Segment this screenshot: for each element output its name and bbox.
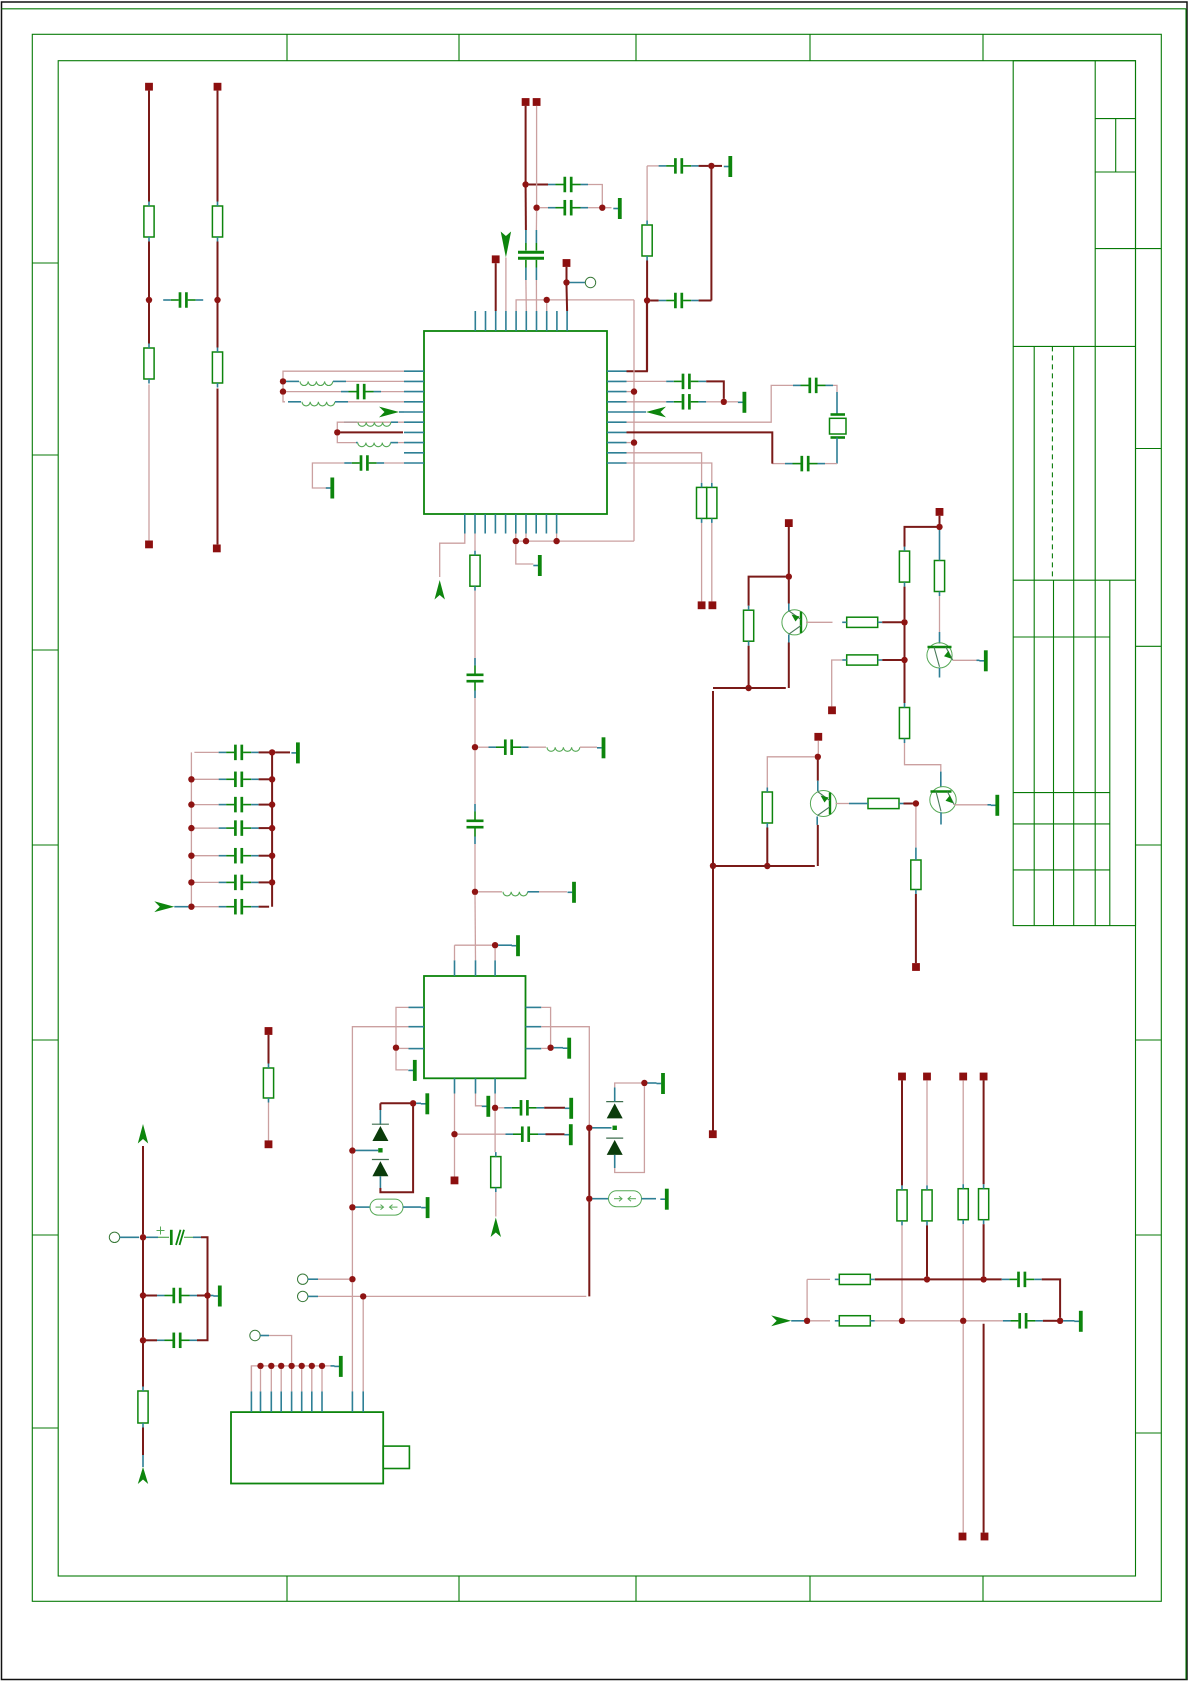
wire — [953, 659, 977, 661]
node N4 — [140, 1337, 146, 1343]
capacitor C3 — [548, 200, 588, 216]
wire — [260, 1369, 262, 1392]
inductor L3 — [358, 422, 391, 426]
wire — [250, 1366, 252, 1392]
wire — [455, 944, 493, 946]
wire — [788, 580, 790, 604]
wire — [286, 391, 341, 393]
node M6 — [1057, 1318, 1063, 1324]
terminal TP5 — [250, 1330, 260, 1340]
wire — [142, 1428, 144, 1456]
wire — [546, 303, 548, 311]
resistor R7 — [707, 483, 717, 523]
wire — [983, 1224, 985, 1276]
wire — [259, 827, 270, 829]
wire — [904, 587, 906, 620]
wire — [627, 385, 794, 422]
power flag PF2 — [501, 232, 511, 258]
terminal P15 — [814, 733, 822, 741]
power flag PF3 — [646, 407, 666, 418]
terminal P18 — [898, 1073, 906, 1081]
wire — [217, 91, 219, 202]
wire — [268, 1103, 270, 1141]
terminal P19 — [923, 1073, 931, 1081]
wire — [474, 534, 476, 551]
diode D4 — [606, 1138, 623, 1155]
node O6 — [309, 1363, 315, 1369]
inductor L2 — [302, 402, 335, 406]
ground GND5 — [533, 555, 540, 576]
power flag PF1 — [379, 407, 399, 418]
capacitor C21 — [157, 1288, 197, 1304]
wire — [259, 804, 270, 806]
wire — [646, 304, 648, 372]
terminal TP2 — [298, 1274, 308, 1284]
diode D3 — [606, 1102, 623, 1119]
wire — [396, 1007, 409, 1044]
ground GND2 — [724, 156, 731, 177]
wire — [905, 527, 937, 547]
wire — [525, 106, 527, 182]
wire — [301, 1369, 303, 1392]
wire — [962, 1324, 964, 1533]
wire — [627, 463, 712, 483]
capacitor C26 — [219, 820, 259, 836]
capacitor C10 — [666, 394, 706, 410]
node M1 — [924, 1276, 930, 1282]
wire — [882, 659, 901, 661]
ground GND7 — [568, 882, 575, 903]
capacitor C27 — [219, 848, 259, 864]
wire — [588, 1202, 590, 1297]
node B3 — [599, 205, 605, 211]
wire — [142, 1299, 144, 1338]
wire — [454, 1094, 456, 1132]
node I1 — [492, 942, 498, 948]
transistor Q3 — [810, 791, 836, 817]
wire — [806, 621, 833, 623]
wire — [633, 300, 635, 541]
resistor R11 — [842, 617, 882, 627]
node D1 — [280, 378, 286, 384]
wire — [362, 1299, 364, 1391]
node N1 — [140, 1234, 146, 1240]
wire — [197, 1299, 208, 1341]
wire — [474, 698, 476, 744]
node E2 — [631, 388, 637, 394]
resistor R6 — [697, 483, 707, 523]
wire — [516, 544, 534, 564]
wire — [525, 534, 527, 539]
resistor R21 — [958, 1184, 968, 1224]
node CB1L — [188, 776, 194, 782]
resistor R26 — [263, 1064, 273, 1103]
node E3 — [631, 439, 637, 445]
node CB6L — [188, 904, 194, 910]
IC U1 — [424, 331, 607, 514]
wire — [541, 1007, 550, 1044]
node M4 — [899, 1318, 905, 1324]
wire — [458, 1133, 506, 1135]
wire — [588, 185, 602, 205]
ground GND12 — [565, 1098, 572, 1119]
capacitor C2 — [548, 177, 588, 193]
ground GND13 — [564, 1124, 571, 1145]
wire — [901, 1225, 903, 1317]
wire — [627, 401, 667, 403]
power flag PF4 — [435, 580, 445, 600]
node O2 — [268, 1363, 274, 1369]
resistor R8 — [470, 551, 480, 591]
terminal P3 — [145, 541, 153, 549]
wire — [539, 891, 567, 893]
transistor Q4 — [930, 787, 956, 813]
wire — [566, 286, 569, 312]
wire — [627, 304, 647, 372]
resistor R22 — [979, 1184, 989, 1224]
ground GND20 — [1074, 1311, 1081, 1332]
U2 pins — [409, 960, 542, 1093]
wire — [269, 1336, 292, 1363]
wire — [270, 1369, 272, 1392]
node O4 — [288, 1363, 294, 1369]
wire — [478, 891, 502, 893]
capacitor C24 — [219, 772, 259, 788]
terminal P24 — [265, 1027, 273, 1035]
wire — [939, 596, 941, 632]
power flag PF8 — [138, 1467, 148, 1484]
wire — [544, 1107, 565, 1109]
wire — [706, 401, 721, 403]
terminal TP3 — [298, 1291, 308, 1301]
ground GND3 — [326, 478, 333, 499]
wire — [280, 1369, 282, 1392]
resistor R19 — [897, 1185, 907, 1225]
capacitor C6 — [659, 293, 699, 309]
ground GND15 — [421, 1197, 428, 1218]
wire — [340, 431, 403, 433]
wire — [498, 1107, 504, 1109]
wire — [714, 165, 722, 167]
node H1 — [472, 744, 478, 750]
wire — [478, 746, 489, 748]
wire — [283, 395, 285, 402]
wire — [351, 1210, 353, 1276]
node B1 — [522, 181, 528, 187]
fuse F1 — [370, 1199, 403, 1215]
wire — [194, 778, 218, 780]
node I3 — [547, 1045, 553, 1051]
resistor R20 — [922, 1185, 932, 1225]
wire — [259, 855, 270, 857]
wire — [556, 534, 558, 539]
wire — [905, 743, 941, 772]
node L2 — [745, 685, 751, 691]
terminal P25 — [265, 1140, 273, 1148]
node O5 — [299, 1363, 305, 1369]
capacitor C13 — [467, 658, 484, 698]
wire — [833, 385, 837, 392]
wire — [440, 534, 465, 578]
wire — [495, 263, 497, 311]
node J2a — [378, 1148, 382, 1152]
node O3 — [278, 1363, 284, 1369]
capacitor C29 — [219, 899, 259, 915]
wire — [217, 303, 219, 348]
resistor R24 — [835, 1316, 875, 1326]
wire — [379, 1103, 381, 1110]
wire — [541, 1027, 589, 1125]
diode D1 — [372, 1124, 389, 1141]
wire — [259, 778, 270, 780]
inductor L1 — [300, 381, 333, 385]
terminal P13 — [936, 508, 944, 516]
wire — [398, 442, 404, 444]
wire — [615, 1083, 642, 1088]
resistor R9 — [491, 1152, 501, 1192]
wire — [875, 1278, 1002, 1280]
node CB3L — [188, 825, 194, 831]
wire — [529, 184, 548, 186]
ground GND21 — [213, 1286, 220, 1307]
node L4 — [936, 524, 942, 530]
transistor Q1 — [782, 610, 807, 635]
terminal P10 — [709, 601, 717, 609]
resistor R23 — [835, 1274, 875, 1284]
node I5 — [492, 1105, 498, 1111]
capacitor C20 — [146, 1227, 201, 1246]
terminal P11 — [451, 1177, 459, 1185]
node A1 — [146, 297, 152, 303]
wire — [605, 207, 611, 209]
node J4 — [349, 1276, 355, 1282]
wire — [148, 91, 150, 202]
resistor R18 — [911, 856, 921, 895]
wire — [646, 166, 648, 221]
resistor R1 — [144, 202, 154, 242]
resistor R17 — [864, 798, 904, 808]
node L8 — [710, 863, 716, 869]
wire — [311, 1369, 313, 1392]
node D2 — [280, 388, 286, 394]
wire — [627, 442, 632, 444]
wire — [915, 807, 917, 848]
wire — [476, 1094, 483, 1106]
terminal P7 — [492, 255, 500, 263]
terminal P21 — [980, 1073, 988, 1081]
capacitor C19 — [1003, 1313, 1043, 1329]
node H2 — [472, 889, 478, 895]
wire — [352, 1027, 408, 1148]
wire — [711, 523, 713, 601]
node M3 — [804, 1318, 810, 1324]
wire — [588, 207, 599, 209]
wire — [494, 948, 496, 960]
resistor R13 — [934, 556, 944, 596]
wire — [915, 894, 917, 963]
node O1 — [257, 1363, 263, 1369]
wire — [516, 540, 634, 542]
node J2 — [349, 1147, 355, 1153]
wire — [146, 1295, 157, 1297]
node K3 — [586, 1196, 592, 1202]
wire — [348, 401, 404, 403]
ground GND17 — [660, 1189, 667, 1210]
node J1 — [410, 1100, 416, 1106]
wire — [646, 261, 648, 298]
wire — [825, 463, 837, 465]
connector J1 — [231, 1412, 409, 1483]
wire — [194, 804, 218, 806]
resistor R15 — [899, 703, 909, 743]
node A2 — [214, 297, 220, 303]
ground GND16 — [657, 1073, 664, 1094]
wire — [627, 453, 702, 483]
ground GND23 — [291, 742, 298, 763]
wire — [541, 1047, 547, 1049]
terminal P9 — [698, 601, 706, 609]
wire — [217, 389, 219, 545]
wire — [727, 401, 738, 403]
wire — [962, 1080, 964, 1184]
wire — [699, 165, 709, 167]
capacitor C9 — [666, 374, 706, 390]
wire — [146, 1339, 157, 1341]
wire — [474, 750, 476, 804]
node O7 — [319, 1363, 325, 1369]
wire — [474, 895, 477, 961]
IC U2 — [424, 976, 526, 1078]
terminal P8 — [563, 259, 571, 267]
wire — [772, 463, 785, 465]
capacitor C7 — [341, 384, 381, 400]
wire — [529, 746, 547, 748]
wire — [627, 391, 632, 393]
terminal P4 — [213, 545, 221, 553]
resistor R16 — [762, 788, 772, 828]
power flag PF5 — [491, 1218, 501, 1238]
wire — [1042, 1279, 1060, 1317]
wire — [882, 621, 901, 623]
node L9 — [913, 800, 919, 806]
resistor R25 — [138, 1387, 148, 1428]
node CB3R — [269, 825, 275, 831]
wire — [495, 1192, 497, 1216]
node L5 — [901, 657, 907, 663]
node CB2L — [188, 801, 194, 807]
node I4 — [451, 1131, 457, 1137]
node CB4L — [188, 853, 194, 859]
node L1 — [786, 573, 792, 579]
inductor L6 — [503, 892, 528, 896]
node J5 — [360, 1293, 366, 1299]
wire — [706, 381, 724, 398]
ground GND6 — [597, 737, 604, 758]
capacitor C25 — [219, 797, 259, 813]
wire — [535, 280, 537, 311]
node E1 — [721, 399, 727, 405]
wire — [148, 385, 150, 541]
capacitor C18 — [1002, 1272, 1042, 1288]
wire — [259, 881, 270, 883]
wire — [337, 422, 357, 429]
wire — [546, 1133, 565, 1135]
wire — [536, 106, 538, 205]
wire — [291, 1369, 293, 1392]
wire — [836, 803, 850, 805]
capacitor C16 — [504, 1100, 544, 1116]
ground GND19 — [991, 795, 998, 816]
wire — [515, 534, 517, 539]
wire — [766, 828, 768, 864]
ground GND1 — [613, 198, 620, 219]
wire — [380, 1102, 410, 1104]
capacitor C23 — [219, 745, 259, 761]
capacitor C28 — [219, 875, 259, 891]
wire — [194, 881, 218, 883]
capacitor C14 — [489, 739, 529, 755]
wire — [767, 757, 815, 788]
wire — [381, 391, 404, 393]
wire — [142, 1343, 144, 1386]
wire — [588, 1131, 590, 1196]
node CB4R — [269, 853, 275, 859]
wire — [396, 1051, 408, 1070]
node F2 — [563, 279, 569, 285]
wire — [194, 827, 218, 829]
node G1 — [513, 538, 519, 544]
wire — [259, 751, 270, 753]
terminal P22 — [959, 1533, 967, 1541]
wire — [380, 1106, 413, 1192]
J1 pins — [251, 1391, 363, 1412]
wire — [1043, 1320, 1057, 1322]
wire — [954, 804, 987, 806]
wire — [904, 625, 906, 657]
capacitor C8 — [344, 455, 384, 471]
wire — [142, 1240, 144, 1292]
wire — [344, 421, 404, 423]
wire — [351, 1154, 353, 1205]
wire — [807, 1278, 830, 1280]
node F1 — [544, 297, 550, 303]
wire — [454, 1137, 456, 1176]
ground GND10 — [563, 1038, 570, 1059]
capacitor C22 — [157, 1333, 197, 1349]
wire — [817, 825, 819, 866]
wire — [282, 384, 284, 388]
wire — [810, 1320, 830, 1322]
node M5 — [960, 1318, 966, 1324]
wire — [516, 300, 634, 311]
wire — [748, 646, 750, 685]
wire — [901, 1080, 903, 1185]
wire — [904, 663, 906, 703]
wire — [351, 1282, 353, 1391]
wire — [788, 643, 790, 689]
wire — [217, 242, 219, 298]
terminal P5 — [522, 98, 530, 106]
inductor L4 — [358, 443, 391, 447]
diode D2 — [372, 1160, 389, 1177]
terminal P20 — [959, 1073, 967, 1081]
ground GND22 — [334, 1356, 341, 1377]
wire — [525, 280, 527, 311]
node I2 — [393, 1045, 399, 1051]
wire — [494, 1111, 496, 1152]
wire — [251, 1366, 330, 1392]
node C2 — [644, 297, 650, 303]
